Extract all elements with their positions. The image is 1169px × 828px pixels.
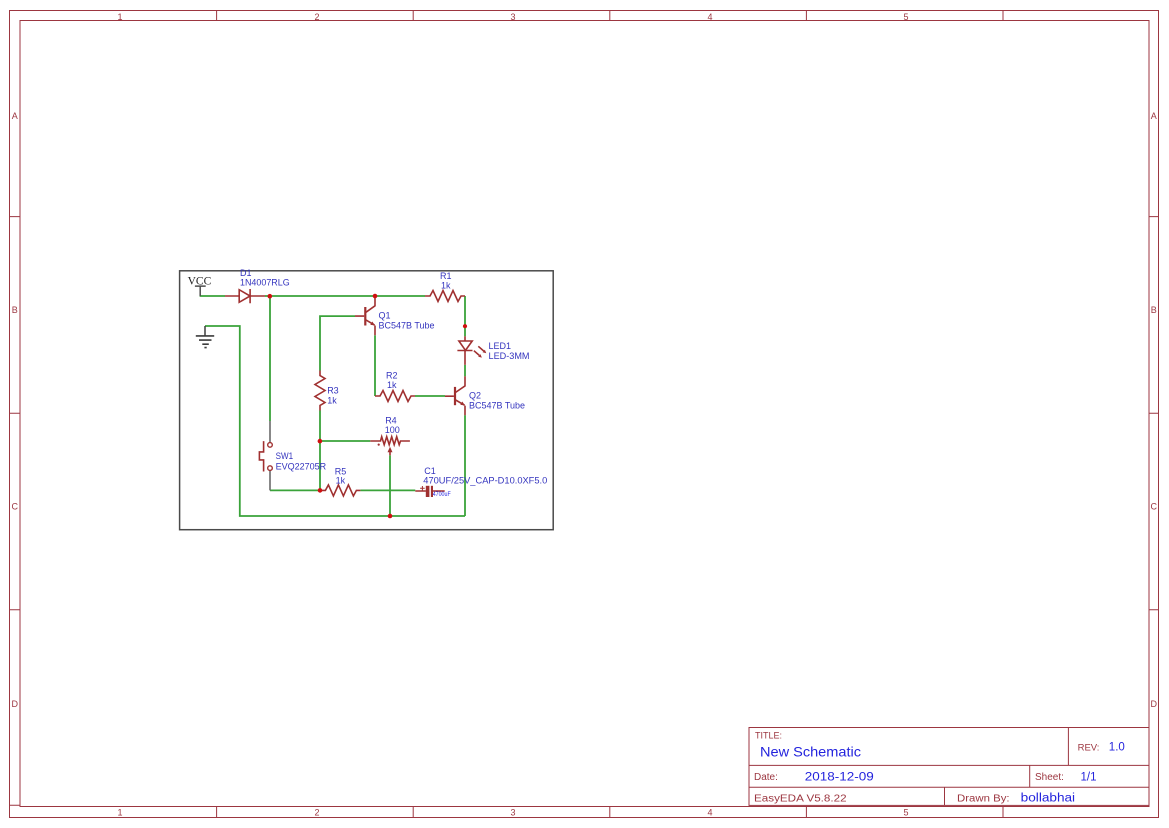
junction dot bottom rail: [388, 514, 393, 519]
svg-text:1k: 1k: [387, 380, 397, 390]
wire R2 to Q2 base: [415, 395, 445, 397]
svg-text:1: 1: [117, 807, 122, 817]
ground: [204, 326, 206, 336]
svg-text:R4: R4: [385, 416, 397, 426]
svg-text:C1: C1: [424, 466, 436, 476]
svg-text:1/1: 1/1: [1081, 771, 1097, 783]
svg-text:SW1: SW1: [276, 451, 294, 461]
svg-text:BC547B Tube: BC547B Tube: [469, 400, 525, 410]
svg-text:R2: R2: [386, 370, 398, 380]
svg-text:VCC: VCC: [188, 275, 212, 287]
wire R5 to C1: [360, 489, 415, 491]
transistor Q1: [355, 296, 375, 335]
wire SW1 to R5: [270, 489, 320, 491]
title block row lines: [749, 728, 1149, 806]
svg-text:D: D: [1151, 699, 1158, 709]
svg-text:C: C: [1151, 502, 1158, 512]
svg-text:C: C: [11, 502, 18, 512]
svg-text:New Schematic: New Schematic: [760, 744, 861, 760]
svg-text:BC547B Tube: BC547B Tube: [379, 320, 435, 330]
svg-text:D: D: [11, 699, 18, 709]
svg-text:EVQ22705R: EVQ22705R: [276, 462, 327, 472]
svg-text:2: 2: [314, 807, 319, 817]
wire top rail D1 to R1: [265, 295, 425, 297]
capacitor C1: [415, 486, 444, 497]
svg-text:LED1: LED1: [489, 341, 512, 351]
svg-text:1k: 1k: [336, 476, 346, 486]
svg-text:REV:: REV:: [1078, 742, 1100, 753]
svg-text:R3: R3: [327, 386, 339, 396]
junction dot above LED: [463, 324, 467, 328]
resistor R2: [375, 391, 415, 402]
svg-text:Q1: Q1: [379, 311, 391, 321]
svg-text:3: 3: [510, 12, 515, 22]
svg-text:Q2: Q2: [469, 391, 481, 401]
svg-text:TITLE:: TITLE:: [755, 730, 782, 740]
wire R3 to R5 junction: [319, 411, 321, 491]
schematic bounding box: [180, 271, 554, 530]
wire ground to bottom rail: [205, 326, 465, 516]
resistor R3: [315, 371, 325, 411]
resistor R5: [320, 485, 360, 496]
wire junction to R4: [320, 440, 370, 442]
junction dot top rail at SW1: [268, 294, 273, 299]
frame column numbers top: [117, 12, 908, 22]
potentiometer R4: [370, 437, 410, 456]
VCC net flag: [195, 286, 206, 296]
svg-text:bollabhai: bollabhai: [1021, 793, 1075, 805]
svg-text:1N4007RLG: 1N4007RLG: [240, 278, 290, 288]
junction dot R3/R4: [318, 439, 323, 444]
svg-text:1.0: 1.0: [1109, 742, 1125, 754]
svg-text:Date:: Date:: [754, 772, 778, 783]
svg-text:A: A: [12, 111, 18, 121]
frame row letters right: [1151, 111, 1158, 709]
svg-text:100: 100: [385, 425, 400, 435]
switch SW1: [259, 421, 272, 490]
svg-text:Sheet:: Sheet:: [1035, 772, 1064, 783]
svg-text:Drawn By:: Drawn By:: [957, 794, 1010, 805]
svg-text:4: 4: [707, 12, 712, 22]
wire Q1 base to R3: [320, 316, 355, 370]
svg-text:5: 5: [903, 807, 908, 817]
svg-text:5: 5: [903, 12, 908, 22]
svg-text:A: A: [1151, 111, 1157, 121]
junction dot R5 left: [318, 488, 323, 493]
wire R4 wiper to bottom rail: [389, 455, 391, 516]
svg-text:1k: 1k: [441, 280, 451, 290]
transistor Q2: [445, 376, 465, 415]
svg-text:4: 4: [707, 807, 712, 817]
svg-text:EasyEDA V5.8.22: EasyEDA V5.8.22: [754, 794, 847, 805]
svg-text:3: 3: [510, 807, 515, 817]
svg-text:B: B: [12, 305, 18, 315]
wire Q2 emitter to bottom rail: [464, 415, 466, 516]
svg-text:1k: 1k: [327, 395, 337, 405]
svg-text:R1: R1: [440, 271, 452, 281]
svg-text:4700uF: 4700uF: [433, 492, 451, 498]
frame row letters left: [11, 111, 18, 709]
svg-text:470UF/25V_CAP-D10.0XF5.0: 470UF/25V_CAP-D10.0XF5.0: [423, 476, 547, 486]
svg-text:LED-3MM: LED-3MM: [489, 351, 530, 361]
svg-text:2018-12-09: 2018-12-09: [805, 771, 874, 783]
resistor R1: [425, 291, 465, 302]
svg-text:B: B: [1151, 305, 1157, 315]
wire Q1 emitter to R2: [374, 335, 376, 396]
diode D1: [225, 289, 265, 303]
svg-text:D1: D1: [240, 268, 252, 278]
wire R1 down to LED: [464, 296, 466, 336]
frame column numbers bottom: [117, 807, 908, 817]
svg-text:2: 2: [314, 12, 319, 22]
wire VCC top rail left: [200, 295, 225, 297]
svg-text:1: 1: [117, 12, 122, 22]
wire junction down to SW1: [269, 296, 271, 421]
junction dot top rail at Q1: [373, 294, 378, 299]
LED LED1: [457, 336, 486, 365]
title block border: [749, 728, 1149, 806]
wire LED to Q2 collector: [464, 365, 466, 376]
